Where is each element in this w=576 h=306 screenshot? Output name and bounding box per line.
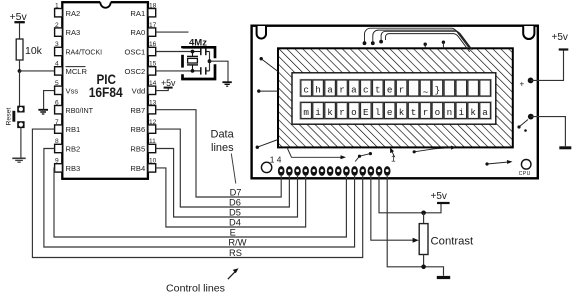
svg-text:17: 17 <box>149 22 157 29</box>
svg-text:t: t <box>411 107 417 118</box>
svg-text:r: r <box>423 107 429 118</box>
svg-text:r: r <box>339 107 345 118</box>
ground (oscillator) <box>222 82 231 86</box>
svg-text:lines: lines <box>211 142 234 154</box>
svg-text:+5v: +5v <box>431 191 447 202</box>
svg-text:k: k <box>327 107 333 118</box>
U1 pin 7 (RB1) <box>55 119 81 134</box>
trace terminal dots (top) <box>363 40 383 45</box>
svg-text:Data: Data <box>211 129 235 141</box>
svg-text:c: c <box>363 85 369 96</box>
U1 pin 6 (RB0/INT) <box>55 99 94 114</box>
wire rail to ground <box>210 61 229 82</box>
power +5v symbol (contrast) <box>431 191 450 203</box>
annotation Data lines <box>211 129 236 184</box>
svg-text:18: 18 <box>149 2 157 9</box>
svg-text:Reset: Reset <box>6 108 13 126</box>
svg-text:e: e <box>387 85 393 96</box>
wire node to reset switch <box>19 71 21 106</box>
LCD module PCB outline <box>252 26 538 179</box>
PCB trace dot (left lower) <box>256 140 278 149</box>
wire D5: RB5 pin11 to LCD pad 12 <box>156 149 298 218</box>
svg-text:RB1: RB1 <box>66 125 81 134</box>
svg-text:l: l <box>375 107 381 118</box>
svg-text:a: a <box>482 107 488 118</box>
svg-text:12: 12 <box>149 119 157 126</box>
mounting hole (bottom left) with label 14 <box>261 155 281 173</box>
U1 pin 9 (RB3) <box>55 158 81 173</box>
PCB trace dot (left middle) <box>257 89 278 92</box>
svg-text:RB4: RB4 <box>130 164 145 173</box>
PCB trace segment (bottom middle) <box>355 152 372 162</box>
svg-text:RB6: RB6 <box>130 125 145 134</box>
svg-text:RB5: RB5 <box>130 145 145 154</box>
svg-text:E: E <box>363 107 369 118</box>
U1 pin 18 (RA1) <box>130 2 156 17</box>
svg-text:D4: D4 <box>229 218 241 228</box>
wire capacitor rail <box>209 52 211 71</box>
svg-text:RA3: RA3 <box>66 28 81 37</box>
node junction (R1 / MCLR / reset) <box>18 69 22 73</box>
U1 pin 8 (RB2) <box>55 138 81 153</box>
ground (Vss) <box>38 110 48 114</box>
svg-text:k: k <box>399 107 405 118</box>
ground bar (backlight) <box>559 146 571 149</box>
wire Vss: LCD pad 1 to ground <box>387 176 443 276</box>
U1 pin 1 (RA2) <box>55 2 81 17</box>
svg-text:10: 10 <box>149 158 157 165</box>
wire E: RB3 pin9 to LCD pad 6 <box>54 168 346 237</box>
wire R/W: RB2 pin8 to LCD pad 5 <box>44 149 355 248</box>
svg-text:3: 3 <box>55 41 59 48</box>
svg-text:}: } <box>435 85 441 96</box>
svg-text:OSC2: OSC2 <box>125 67 146 76</box>
U1 pin 11 (RB5) <box>130 138 156 153</box>
capacitor C2 (OSC2) <box>193 67 210 74</box>
svg-text:14: 14 <box>149 80 157 87</box>
power +5v symbol (backlight) <box>552 32 569 50</box>
backlight cathode terminal - <box>528 114 534 120</box>
PCB trace arrow (far right bottom) <box>485 160 512 166</box>
svg-text:Vss: Vss <box>66 86 79 95</box>
svg-text:D6: D6 <box>229 198 241 208</box>
svg-text:+5v: +5v <box>552 32 568 43</box>
LCD bezel (hatched) <box>278 48 513 147</box>
svg-text:D5: D5 <box>229 208 241 218</box>
U1 pin 17 (RA0) <box>130 22 156 37</box>
wire D6: RB6 pin12 to LCD pad 13 <box>156 129 290 207</box>
power +5V supply symbol (top left) <box>10 11 28 23</box>
wire pin 17 RA0 stub to 4Mz label <box>156 31 189 33</box>
svg-text:13: 13 <box>149 99 157 106</box>
svg-text:RS: RS <box>229 248 242 258</box>
wire OSC2 pin 15 into oscillator <box>156 70 193 72</box>
wire Vo: LCD pad 3 to contrast wiper <box>371 176 413 240</box>
svg-text:CPU: CPU <box>519 171 531 177</box>
svg-text:RB0/INT: RB0/INT <box>66 106 94 115</box>
svg-text:1 4: 1 4 <box>270 155 282 165</box>
svg-text:r: r <box>399 85 405 96</box>
svg-text:+: + <box>520 80 525 89</box>
annotation Control lines <box>166 268 239 294</box>
svg-text:1: 1 <box>55 2 59 9</box>
wiper arrowhead <box>413 238 419 243</box>
node junction (pot top) <box>421 211 426 216</box>
svg-text:16: 16 <box>149 41 157 48</box>
svg-text:o: o <box>351 107 357 118</box>
svg-text:MCLR: MCLR <box>66 67 88 76</box>
svg-text:Vdd: Vdd <box>132 86 146 95</box>
svg-text:a: a <box>327 85 333 96</box>
wire Vdd pin 14 to +5v <box>156 88 169 91</box>
U1 pin 10 (RB4) <box>130 158 156 173</box>
svg-text:1: 1 <box>391 154 396 164</box>
ground bar (contrast) <box>437 276 450 279</box>
node OSC1 junction <box>191 50 195 54</box>
svg-text:7: 7 <box>55 119 59 126</box>
svg-text:i: i <box>459 107 465 118</box>
svg-text:n: n <box>447 107 453 118</box>
U1 pin 14 (Vdd) <box>132 80 157 95</box>
U1 pin 13 (RB7) <box>130 99 156 114</box>
svg-text:RA2: RA2 <box>66 9 81 18</box>
pushbutton switch Reset <box>6 106 25 128</box>
wire Vdd: LCD pad 2 to +5v node <box>379 176 441 213</box>
wire pot bottom to ground node <box>423 255 425 267</box>
wire OSC1 pin 16 into oscillator <box>156 51 193 53</box>
LCD character cells row 2: "mikroElektronika" <box>300 101 492 119</box>
node rail junction <box>208 59 212 63</box>
PCB trace arrow (pin 1 marker) <box>390 147 395 157</box>
svg-text:9: 9 <box>55 158 59 165</box>
svg-text:RA0: RA0 <box>130 28 145 37</box>
svg-text:16F84: 16F84 <box>89 85 123 100</box>
PCB test point A <box>424 43 427 49</box>
power +5v symbol (Vdd) <box>161 78 176 88</box>
potentiometer R2 Contrast <box>419 224 474 255</box>
svg-text:RB7: RB7 <box>130 106 145 115</box>
svg-text:6: 6 <box>55 99 59 106</box>
svg-text:Contrast: Contrast <box>431 235 475 247</box>
trace near cathode <box>517 120 528 132</box>
U1 pin 3 (RA4/TOCKI) <box>55 41 102 56</box>
svg-text:i: i <box>315 107 321 118</box>
wire reset switch to ground <box>20 128 22 158</box>
node OSC2 junction <box>191 69 195 73</box>
backlight anode terminal + <box>520 78 534 89</box>
wire Vss pin 5 to ground <box>44 91 55 110</box>
svg-text:8: 8 <box>55 138 59 145</box>
wire R1 to node MCLR <box>19 60 21 71</box>
PCB trace arrow (bottom right) <box>413 146 457 154</box>
U1 pin 4 (MCLR) <box>55 61 88 76</box>
U1 pin 16 (OSC1) <box>125 41 157 56</box>
svg-text:t: t <box>375 85 381 96</box>
wire D7: RB7 pin13 to LCD pad 14 <box>156 110 282 197</box>
wire D4: RB4 pin10 to LCD pad 11 <box>156 168 306 227</box>
svg-text:o: o <box>435 107 441 118</box>
svg-text:OSC1: OSC1 <box>125 48 146 57</box>
svg-text:~: ~ <box>423 87 429 98</box>
svg-text:c: c <box>303 85 309 96</box>
svg-text:15: 15 <box>149 61 157 68</box>
PCB backlight traces (top, curved) <box>365 28 473 52</box>
svg-text:RA1: RA1 <box>130 9 145 18</box>
PCB mounting slot (top right) <box>523 26 534 39</box>
U1 pin 15 (OSC2) <box>125 61 157 76</box>
svg-text:Control lines: Control lines <box>166 284 225 295</box>
svg-text:h: h <box>315 85 321 96</box>
svg-text:2: 2 <box>55 22 59 29</box>
LCD display window <box>292 73 496 124</box>
svg-text:RB3: RB3 <box>66 164 81 173</box>
wire RS: RB1 pin7 to LCD pad 4 <box>32 129 362 257</box>
LCD connector pads 14..1 <box>278 166 391 176</box>
svg-text:k: k <box>470 107 476 118</box>
IC U1 PIC 16F84 body <box>62 1 148 179</box>
node junction (pot bottom) <box>421 265 426 270</box>
svg-text:11: 11 <box>149 138 156 145</box>
capacitor C1 (OSC1) <box>193 48 210 55</box>
svg-text:m: m <box>303 107 309 118</box>
PCB mounting slot (top left) <box>257 26 266 39</box>
oscillator enclosure box <box>183 47 216 79</box>
svg-text:E: E <box>230 228 236 238</box>
svg-text:4: 4 <box>55 61 59 68</box>
svg-text:5: 5 <box>55 80 59 87</box>
svg-text:R/W: R/W <box>228 238 246 248</box>
svg-text:10k: 10k <box>25 45 43 57</box>
crystal X1 4MHz <box>187 52 198 71</box>
wire +5v to resistor R1 <box>19 23 21 39</box>
U1 pin 2 (RA3) <box>55 22 81 37</box>
PCB test point B <box>442 41 445 49</box>
wire node to pin 4 MCLR <box>20 70 56 72</box>
wire node to pot top <box>423 213 425 224</box>
PCB trace dot (left upper) <box>260 57 279 72</box>
svg-text:a: a <box>351 85 357 96</box>
svg-text:RB2: RB2 <box>66 145 81 154</box>
svg-text:RA4/TOCKI: RA4/TOCKI <box>66 48 103 57</box>
resistor R1 10k <box>16 39 42 60</box>
mounting hole (bottom right) with CPU marking <box>519 160 531 178</box>
ground (below reset switch) <box>12 158 25 162</box>
svg-text:r: r <box>339 85 345 96</box>
svg-text:+5v: +5v <box>161 78 176 88</box>
PCB trace arrow (bottom left) <box>288 149 347 160</box>
U1 pin 12 (RB6) <box>130 119 156 134</box>
LCD character cells row 1: "character ~}" <box>300 79 492 98</box>
wire backlight + to +5v <box>531 51 564 81</box>
svg-text:e: e <box>387 107 393 118</box>
svg-text:D7: D7 <box>230 188 242 198</box>
U1 pin 5 (Vss) <box>55 80 79 95</box>
wire backlight - to ground <box>531 117 566 147</box>
